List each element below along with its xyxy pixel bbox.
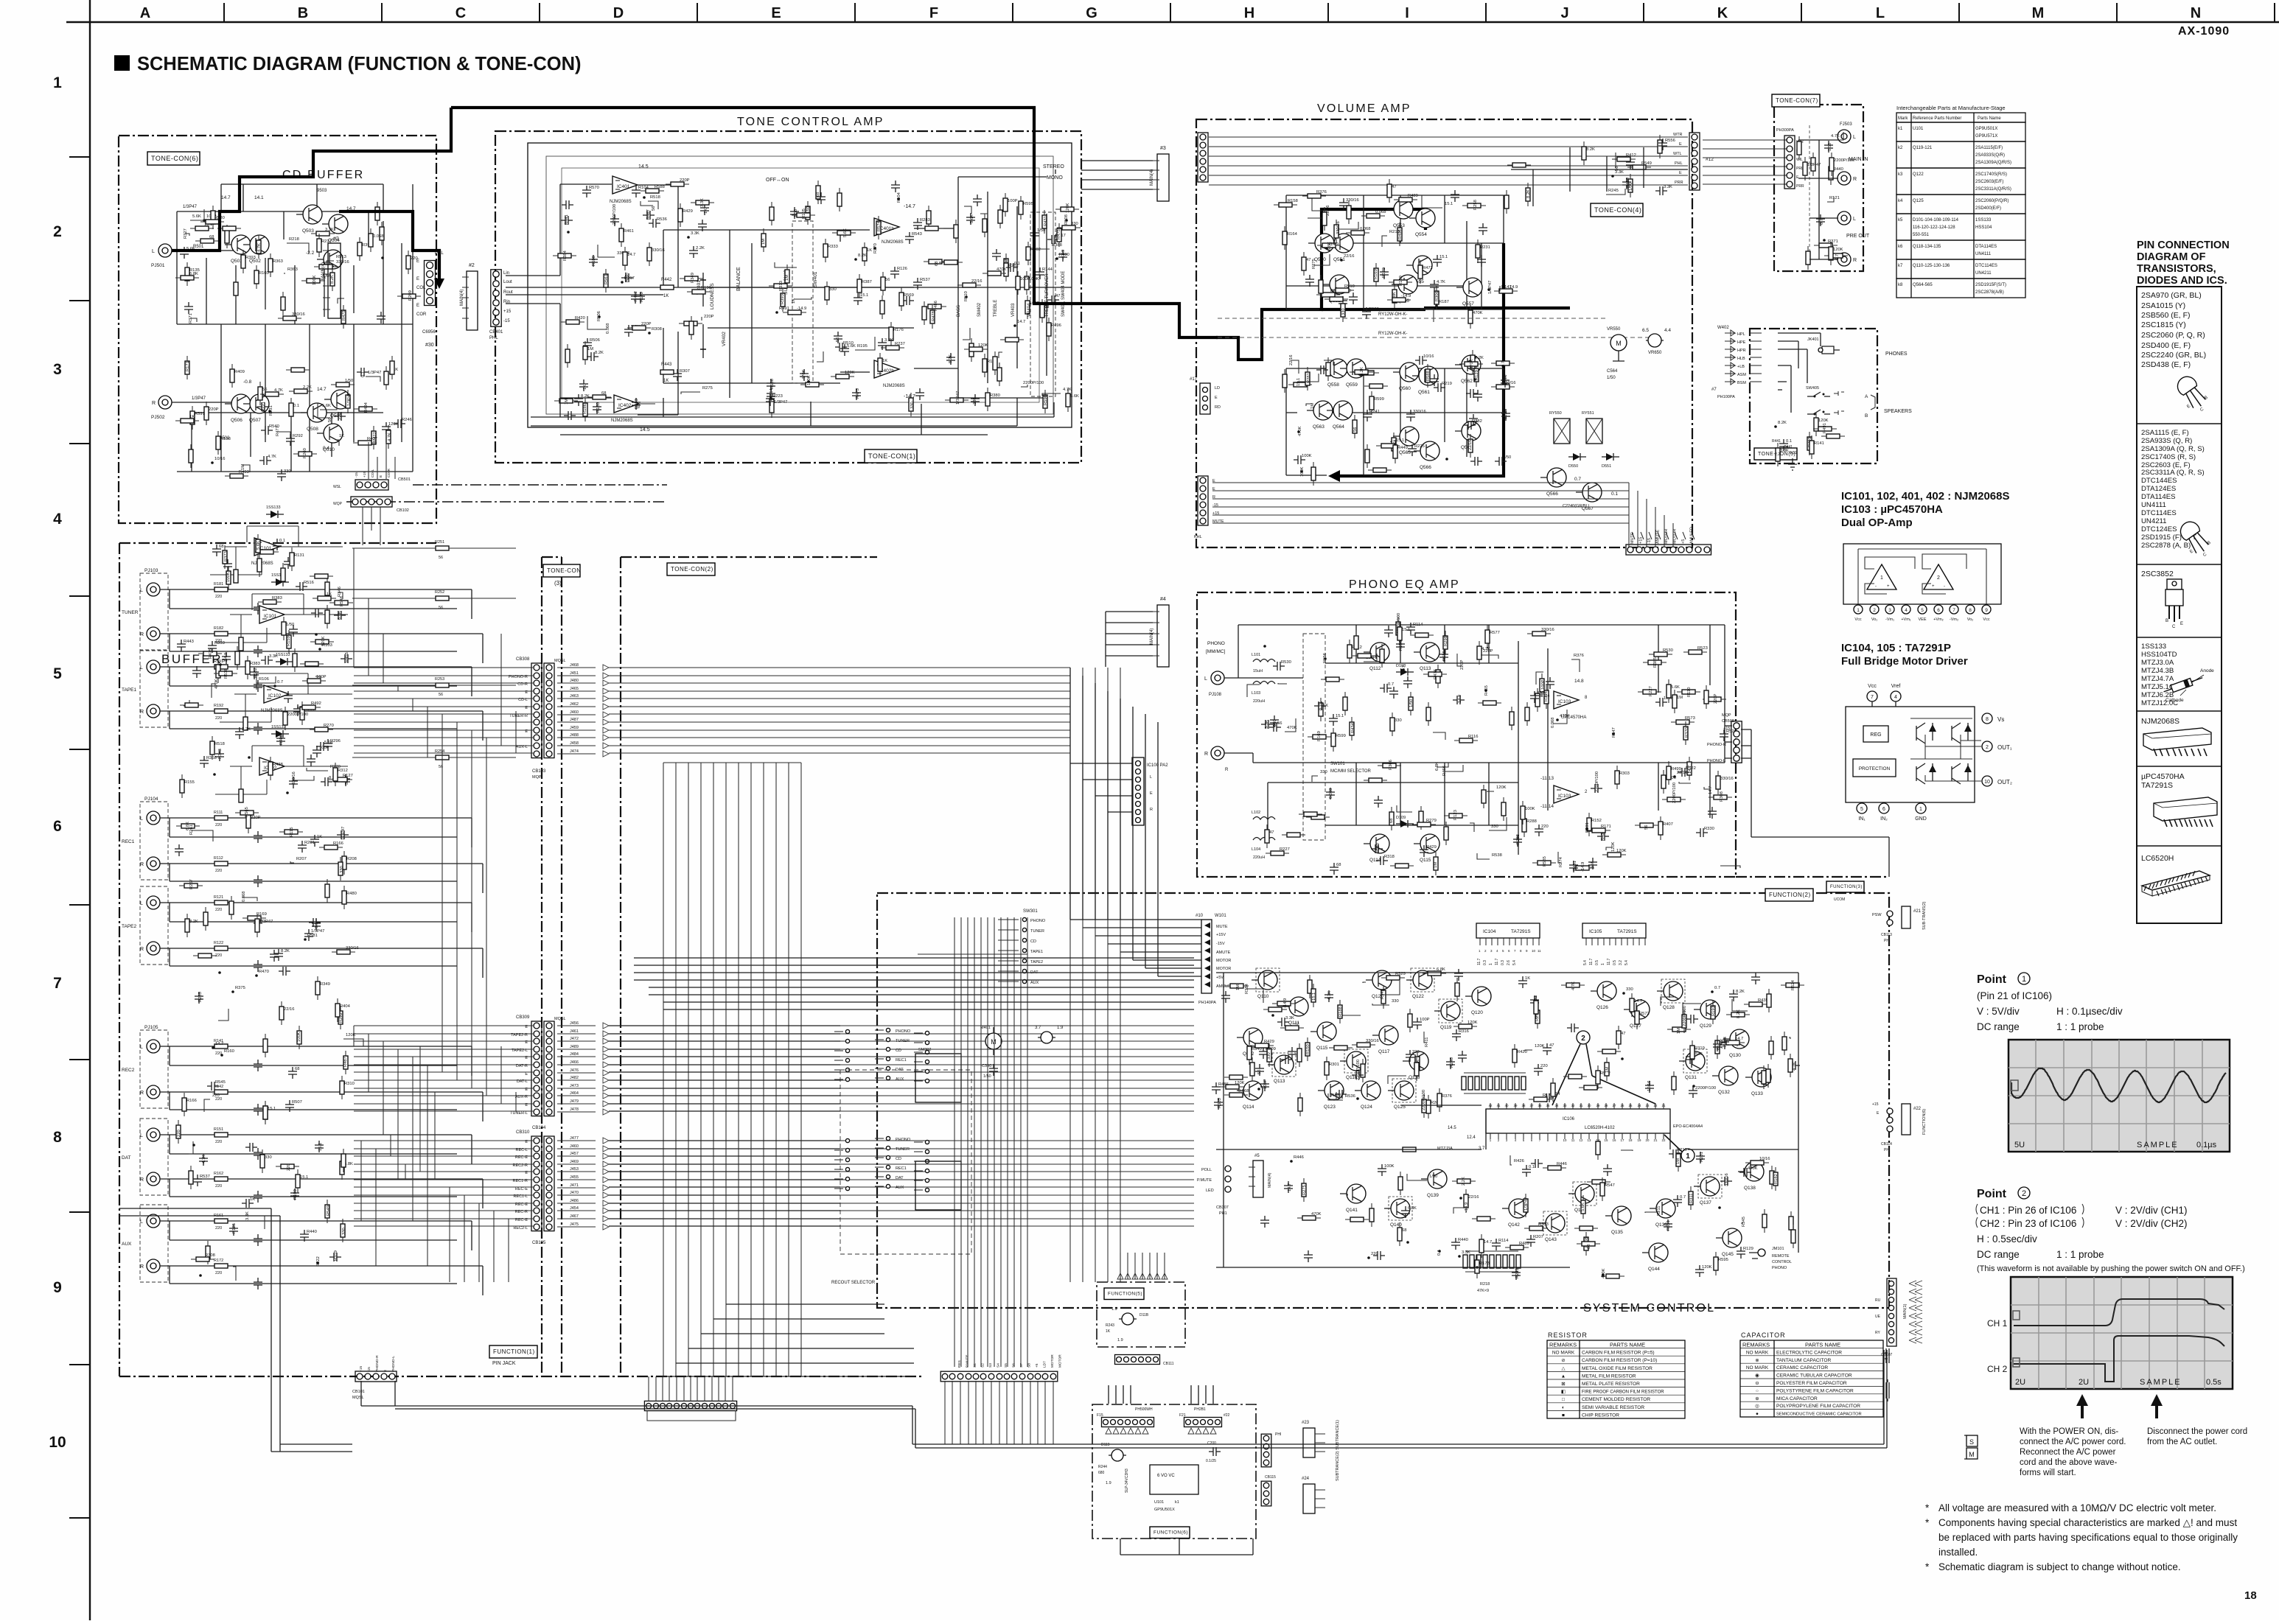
svg-text:R211: R211 <box>1657 1206 1661 1216</box>
svg-text:R103: R103 <box>322 643 332 648</box>
svg-text:0.1: 0.1 <box>279 539 285 543</box>
svg-text:R252: R252 <box>435 590 444 595</box>
svg-text:MTZJ4.7A: MTZJ4.7A <box>2141 675 2174 683</box>
svg-text:R160: R160 <box>224 1049 234 1054</box>
svg-text:CD: CD <box>896 1157 901 1161</box>
svg-text:PJ501: PJ501 <box>151 263 165 268</box>
transistor Q117 <box>1372 1026 1398 1054</box>
series parts TAPE2 <box>214 900 228 905</box>
connector MAIN(4) #4 <box>1150 597 1169 667</box>
svg-text:IN₂: IN₂ <box>1880 816 1888 822</box>
svg-text:9: 9 <box>53 1279 62 1296</box>
op-amp IC102 <box>261 685 289 713</box>
svg-text:R467: R467 <box>646 209 651 220</box>
svg-text:F15: F15 <box>1097 1413 1103 1418</box>
svg-text:PHONO: PHONO <box>896 1138 911 1142</box>
svg-text:Vo₁: Vo₁ <box>1871 617 1877 622</box>
svg-text:330/16: 330/16 <box>336 260 349 265</box>
svg-text:SM302: SM302 <box>918 1048 931 1052</box>
svg-text:⊠: ⊠ <box>1561 1382 1566 1387</box>
svg-text:Q554: Q554 <box>1415 232 1427 237</box>
TA7291P block diagram <box>1846 684 2012 822</box>
svg-text:MAIN(1): MAIN(1) <box>1903 1303 1908 1319</box>
svg-text:-14.9: -14.9 <box>1581 862 1585 872</box>
svg-text:4.7K: 4.7K <box>1793 1062 1797 1071</box>
op-amp IC101 <box>259 606 285 623</box>
svg-text:1/50: 1/50 <box>1828 143 1832 151</box>
svg-text:R231: R231 <box>1480 245 1490 250</box>
svg-text:R308: R308 <box>205 1253 215 1258</box>
transistor Q127 <box>1624 1000 1650 1029</box>
svg-text:0.1: 0.1 <box>361 371 366 377</box>
svg-text:SM402: SM402 <box>977 302 982 317</box>
svg-text:R351: R351 <box>1667 1220 1671 1231</box>
svg-text:8.2K: 8.2K <box>581 394 590 399</box>
svg-text:CB114: CB114 <box>1881 1142 1892 1147</box>
svg-text:PSW: PSW <box>1872 913 1882 917</box>
svg-text:+15: +15 <box>1723 727 1730 731</box>
jack REC2 R <box>140 1085 160 1099</box>
svg-text:2SC3311A (Q, R, S): 2SC3311A (Q, R, S) <box>2141 469 2205 477</box>
transistor Q551 <box>1327 234 1353 262</box>
svg-text:L101: L101 <box>1252 653 1260 657</box>
signal path (thick) volume inner link <box>1322 209 1570 309</box>
jack main/pre jack R352 <box>1837 253 1857 266</box>
IC NJM2068S package <box>2141 717 2211 756</box>
svg-text:L: L <box>1204 676 1207 682</box>
motor VR550 <box>1607 327 1627 380</box>
svg-text:WTL: WTL <box>1673 152 1682 156</box>
svg-text:Q563: Q563 <box>1313 424 1325 430</box>
svg-text:330: 330 <box>910 402 915 409</box>
svg-text:H : 0.5sec/div: H : 0.5sec/div <box>1977 1233 2037 1245</box>
svg-text:FUNCTION(3): FUNCTION(3) <box>1830 885 1863 889</box>
svg-text:E: E <box>1679 142 1682 147</box>
svg-text:6.8K: 6.8K <box>1435 762 1439 771</box>
svg-text:CB105: CB105 <box>532 1241 546 1245</box>
triangle arrows above function5 <box>1117 1273 1123 1279</box>
svg-text:220uH: 220uH <box>1253 855 1265 860</box>
svg-text:3.3K: 3.3K <box>1265 720 1269 729</box>
svg-text:Interchangeable Parts at Manuf: Interchangeable Parts at Manufacture-Sta… <box>1896 105 2006 111</box>
svg-text:HPL: HPL <box>1737 332 1745 337</box>
svg-text:CB310: CB310 <box>516 1130 530 1135</box>
svg-text:CB102: CB102 <box>397 508 409 513</box>
svg-text:220: 220 <box>1541 825 1549 829</box>
transistor Q141 <box>1340 1184 1366 1213</box>
transistor Q555 <box>1406 256 1432 284</box>
svg-text:100P: 100P <box>1020 277 1030 281</box>
svg-text:+5: +5 <box>1035 1363 1039 1368</box>
page edge marker S M <box>1964 1435 1978 1459</box>
op-amp IC101 <box>251 538 279 566</box>
svg-text:8: 8 <box>1986 717 1989 722</box>
svg-text:56: 56 <box>262 388 267 392</box>
feedback parts IC102 <box>215 746 348 794</box>
arrows into bottom connector <box>1632 532 1695 539</box>
svg-text:2SD1915F(S/T): 2SD1915F(S/T) <box>1975 283 2006 287</box>
svg-text:330/16: 330/16 <box>1541 628 1554 632</box>
ground sym tonecon5 <box>1788 458 1797 470</box>
svg-text:PHONO: PHONO <box>1207 641 1225 646</box>
svg-text:R518: R518 <box>224 668 228 679</box>
svg-text:IC101: IC101 <box>264 614 277 619</box>
svg-text:R296: R296 <box>330 739 341 743</box>
svg-text:R333: R333 <box>1538 1222 1549 1227</box>
svg-text:S: S <box>1969 1438 1974 1446</box>
bus joins left 3 <box>361 1046 509 1282</box>
svg-text:R166: R166 <box>333 841 343 846</box>
svg-text:R573: R573 <box>1685 716 1695 721</box>
component cluster buffer stage parts <box>177 534 353 798</box>
IC LC6520H package <box>2141 854 2210 896</box>
svg-text:0.1: 0.1 <box>1437 1250 1442 1256</box>
svg-text:6 VO VC: 6 VO VC <box>1157 1474 1175 1478</box>
svg-text:COR: COR <box>416 312 427 317</box>
svg-text:MQSL: MQSL <box>352 1396 364 1400</box>
transistor Q506 <box>225 394 251 423</box>
svg-text:STEREO: STEREO <box>1043 164 1064 169</box>
svg-text:VR402: VR402 <box>722 332 727 346</box>
svg-text:L103: L103 <box>1252 691 1260 696</box>
svg-text:R448: R448 <box>1723 1037 1728 1047</box>
svg-text:1.9: 1.9 <box>1117 1338 1123 1343</box>
svg-text:R513: R513 <box>336 255 346 259</box>
svg-text:1SS133: 1SS133 <box>271 725 286 729</box>
svg-text:220: 220 <box>1540 1064 1548 1068</box>
svg-text:68: 68 <box>1402 1228 1406 1233</box>
svg-text:E: E <box>416 304 419 308</box>
svg-text:330: 330 <box>829 287 837 292</box>
svg-text:L: L <box>1853 217 1856 222</box>
svg-text:120K: 120K <box>1467 1021 1478 1025</box>
svg-text:2SA1309A (Q, R, S): 2SA1309A (Q, R, S) <box>2141 445 2205 453</box>
svg-text:D101-104-108-109-114: D101-104-108-109-114 <box>1913 218 1959 223</box>
svg-text:330: 330 <box>1267 1052 1271 1060</box>
svg-text:MTZJ3.0A: MTZJ3.0A <box>2141 659 2174 667</box>
svg-text:PJ502: PJ502 <box>151 415 165 420</box>
svg-text:C200: C200 <box>1207 1441 1216 1446</box>
svg-text:1M: 1M <box>1677 696 1683 700</box>
svg-text:TUNER: TUNER <box>122 610 139 615</box>
transistor Q501 <box>225 235 251 264</box>
svg-text:FJ503: FJ503 <box>1840 122 1852 127</box>
svg-text:PHONO: PHONO <box>1030 919 1046 923</box>
svg-text:GP9U501X: GP9U501X <box>1154 1508 1175 1512</box>
svg-text:J462: J462 <box>570 702 579 707</box>
svg-text:R585: R585 <box>1543 856 1547 867</box>
svg-text:DAT: DAT <box>896 1176 904 1180</box>
labels CB310/CB105 <box>513 1136 609 1231</box>
svg-text:WIL: WIL <box>1796 158 1803 162</box>
svg-text:R267: R267 <box>189 879 194 889</box>
svg-text:CD-R: CD-R <box>387 468 391 477</box>
svg-text:R489: R489 <box>1408 194 1418 198</box>
svg-text:R105: R105 <box>802 209 806 219</box>
svg-text:POLYSTYRENE FILM CAPACITOR: POLYSTYRENE FILM CAPACITOR <box>1776 1388 1854 1393</box>
transistor Q567 <box>1576 483 1602 511</box>
svg-text:Q119-121: Q119-121 <box>1913 146 1933 150</box>
transistor Q119 <box>1434 999 1462 1030</box>
svg-text:R370: R370 <box>1685 727 1689 738</box>
svg-text:3.3K: 3.3K <box>691 231 699 236</box>
svg-text:R116: R116 <box>1468 735 1478 739</box>
svg-text:100P: 100P <box>1263 1079 1268 1089</box>
svg-text:R182: R182 <box>214 626 223 631</box>
transistor Q504 <box>322 214 348 243</box>
svg-text:2SC2060 (P, Q, R): 2SC2060 (P, Q, R) <box>2141 331 2205 340</box>
svg-text:470K: 470K <box>1473 311 1483 315</box>
svg-text:J482: J482 <box>570 1076 579 1080</box>
svg-text:TAPE1: TAPE1 <box>1030 950 1043 954</box>
input jack group TUNER dashed box <box>140 573 168 650</box>
svg-text:10/16: 10/16 <box>1504 374 1508 385</box>
svg-text:R122: R122 <box>214 941 223 945</box>
svg-text:R: R <box>140 1264 144 1270</box>
svg-text:R103: R103 <box>259 271 269 276</box>
svg-text:11.7: 11.7 <box>1607 958 1611 965</box>
svg-text:R393: R393 <box>245 256 256 260</box>
IC104 block <box>1476 923 1541 953</box>
wire bus mid vertical bundle <box>663 763 801 1376</box>
svg-text:470K: 470K <box>1311 1212 1322 1217</box>
svg-text:VR550: VR550 <box>1607 327 1621 332</box>
svg-text:TONE-CON(1): TONE-CON(1) <box>868 452 915 460</box>
svg-text:Q115: Q115 <box>1420 858 1431 863</box>
svg-text:4: 4 <box>1905 608 1908 613</box>
pin connection outer box <box>2137 287 2222 923</box>
transistor Q554 <box>1409 209 1435 237</box>
svg-text:IC401: IC401 <box>617 184 630 189</box>
phono opamps IC103 <box>1554 679 1588 720</box>
svg-text:SUB-TRANS(2): SUB-TRANS(2) <box>1922 901 1927 930</box>
svg-text:R486: R486 <box>934 301 938 311</box>
svg-text:8.2K: 8.2K <box>858 253 867 258</box>
svg-text:PHONO: PHONO <box>896 1029 911 1034</box>
svg-text:REC2-L: REC2-L <box>513 1226 528 1231</box>
svg-text:POLYPROPYLENE FILM CAPACITOR: POLYPROPYLENE FILM CAPACITOR <box>1776 1404 1860 1409</box>
svg-text:Anode: Anode <box>2200 668 2214 673</box>
svg-text:R501: R501 <box>193 245 204 249</box>
svg-text:5: 5 <box>53 665 62 682</box>
svg-text:#23: #23 <box>1302 1421 1310 1425</box>
svg-text:16: 16 <box>1613 1138 1616 1142</box>
svg-text:R491: R491 <box>1823 423 1827 433</box>
svg-text:J487: J487 <box>570 718 579 722</box>
svg-text:RES: RES <box>957 1360 962 1368</box>
svg-text:PJ104: PJ104 <box>144 797 158 802</box>
svg-text:LD: LD <box>1215 386 1220 391</box>
svg-text:METAL PLATE RESISTOR: METAL PLATE RESISTOR <box>1582 1382 1640 1387</box>
svg-text:PROTECTION: PROTECTION <box>1859 766 1891 771</box>
svg-text:R292: R292 <box>293 434 303 438</box>
wire TUNER jack wires <box>160 589 483 663</box>
svg-text:120K: 120K <box>1616 849 1627 853</box>
block SYSTEM CONTROL outline FUNCTION(2) <box>877 893 1889 1308</box>
svg-text:18: 18 <box>1629 1138 1633 1142</box>
svg-text:R164: R164 <box>1287 232 1298 237</box>
svg-text:RY550: RY550 <box>1549 411 1562 416</box>
svg-text:R371: R371 <box>189 313 193 323</box>
svg-text:R487: R487 <box>343 1057 348 1067</box>
svg-text:SEMICONDUCTIVE CERAMIC CAPACIT: SEMICONDUCTIVE CERAMIC CAPACITOR <box>1776 1413 1862 1417</box>
transistor group 1 list <box>2141 291 2213 418</box>
svg-text:R549: R549 <box>327 1205 331 1216</box>
svg-text:CB501: CB501 <box>398 477 411 482</box>
transistor Q561 <box>1412 366 1438 395</box>
svg-text:be replaced with parts having: be replaced with parts having specificat… <box>1938 1532 2238 1543</box>
feedback parts IC101 <box>215 594 348 643</box>
svg-text:J488: J488 <box>570 733 579 738</box>
speaker switches SW405 <box>1806 386 1868 419</box>
svg-text:(This waveform is not availabl: (This waveform is not available by pushi… <box>1977 1264 2245 1273</box>
buffer output resistors <box>352 540 516 769</box>
svg-text:R546: R546 <box>340 596 344 606</box>
svg-text:0.1: 0.1 <box>293 404 299 408</box>
svg-text:100K: 100K <box>1300 466 1305 477</box>
svg-text:TUNER-L: TUNER-L <box>510 1111 528 1116</box>
svg-text:R210: R210 <box>1677 1148 1687 1152</box>
svg-text:MOTOR: MOTOR <box>1216 967 1231 971</box>
svg-text:TANTALUM CAPACITOR: TANTALUM CAPACITOR <box>1776 1358 1831 1363</box>
svg-text:1/50: 1/50 <box>286 623 294 627</box>
svg-text:1 : 1 probe: 1 : 1 probe <box>2056 1249 2104 1260</box>
component cluster tonecon7 parts <box>1797 132 1854 270</box>
svg-text:12: 12 <box>1580 1138 1583 1142</box>
svg-text:A: A <box>140 5 150 21</box>
svg-text:MOTOR: MOTOR <box>1664 529 1669 544</box>
svg-text:R222: R222 <box>316 1256 321 1267</box>
svg-text:#10: #10 <box>1196 914 1204 918</box>
svg-text:14.7: 14.7 <box>215 1042 223 1046</box>
transistor Q144 <box>1642 1243 1668 1272</box>
svg-text:1/50: 1/50 <box>983 1074 991 1079</box>
W101 connector arrows <box>1196 914 1233 1005</box>
transistor Q114 <box>1237 1081 1263 1110</box>
svg-text:PHONO: PHONO <box>1772 1266 1787 1270</box>
svg-text:R166: R166 <box>186 1099 197 1103</box>
svg-text:RY12W-OH-K-: RY12W-OH-K- <box>1378 332 1407 336</box>
svg-text:Vo₂: Vo₂ <box>1967 617 1974 622</box>
svg-text:IC102: IC102 <box>268 693 282 699</box>
svg-text:J460: J460 <box>570 710 579 715</box>
svg-text:J460: J460 <box>570 1144 579 1149</box>
R442 R443 resistors <box>660 278 674 298</box>
svg-text:NJM2068S: NJM2068S <box>610 200 632 204</box>
svg-text:1SS133: 1SS133 <box>2141 643 2166 651</box>
svg-text:100K: 100K <box>313 275 317 285</box>
svg-text:1/50: 1/50 <box>1503 455 1511 460</box>
svg-text:100K: 100K <box>297 1032 301 1042</box>
svg-text:PH140PA: PH140PA <box>1198 1001 1216 1005</box>
svg-text:3.3K: 3.3K <box>1664 185 1672 189</box>
svg-text:BASS: BASS <box>957 305 961 317</box>
svg-text:15.1: 15.1 <box>1439 255 1448 259</box>
svg-text:39: 39 <box>1514 1104 1518 1107</box>
connector PH160PA <box>1102 1418 1154 1427</box>
svg-text:Q503: Q503 <box>302 228 314 234</box>
svg-text:1K: 1K <box>250 1197 255 1202</box>
svg-text:330: 330 <box>1392 999 1399 1004</box>
svg-text:R572: R572 <box>1639 1012 1650 1016</box>
page title <box>114 54 582 74</box>
svg-text:22/16: 22/16 <box>1289 354 1294 365</box>
svg-text:J454: J454 <box>570 1206 579 1211</box>
transistor Q122 <box>1406 968 1434 999</box>
svg-text:R491: R491 <box>779 307 789 311</box>
svg-text:56: 56 <box>439 556 443 560</box>
wire sel feed 2 <box>609 1141 840 1226</box>
svg-text:R461: R461 <box>1573 861 1577 871</box>
svg-text:RECOUT SELECTOR: RECOUT SELECTOR <box>831 1281 876 1285</box>
svg-text:□: □ <box>1562 1397 1565 1402</box>
remote control jack <box>1749 1247 1792 1270</box>
component cluster phono parts R <box>1265 757 1740 875</box>
svg-text:R561: R561 <box>604 274 609 284</box>
svg-text:15.1: 15.1 <box>1336 714 1344 718</box>
svg-text:R382: R382 <box>1472 419 1482 424</box>
svg-text:RY12W-OH-K-: RY12W-OH-K- <box>1378 312 1407 317</box>
svg-text:R129: R129 <box>1743 1247 1753 1251</box>
C200 label <box>1206 1441 1221 1463</box>
svg-text:20: 20 <box>1646 1138 1650 1142</box>
transistor Q552 <box>1323 275 1349 304</box>
svg-text:RY: RY <box>1875 1331 1881 1335</box>
labels CB308/CB103 <box>509 663 609 757</box>
relay dashed lines <box>1218 318 1657 337</box>
svg-text:11: 11 <box>1571 1138 1575 1142</box>
svg-text:R306: R306 <box>1435 291 1439 301</box>
svg-text:R217: R217 <box>624 276 635 281</box>
svg-text:220: 220 <box>215 908 222 912</box>
svg-text:N: N <box>2191 5 2201 21</box>
svg-text:11.7: 11.7 <box>1477 958 1481 965</box>
svg-text:R209: R209 <box>408 290 413 301</box>
svg-text:23: 23 <box>1646 1104 1650 1107</box>
svg-text:R599: R599 <box>1374 397 1384 402</box>
svg-text:330/16: 330/16 <box>1413 410 1426 414</box>
svg-text:#30: #30 <box>425 343 434 348</box>
svg-text:22/16: 22/16 <box>1344 254 1355 259</box>
svg-text:DTC124ES: DTC124ES <box>2141 525 2177 533</box>
svg-text:L: L <box>140 588 143 593</box>
svg-text:R311: R311 <box>1689 1194 1694 1203</box>
svg-text:J470: J470 <box>570 1191 579 1195</box>
svg-text:R127: R127 <box>343 774 353 778</box>
svg-text:I: I <box>1405 5 1409 21</box>
svg-text:120K: 120K <box>978 343 988 348</box>
svg-text:R393: R393 <box>781 294 785 304</box>
svg-text:8.2K: 8.2K <box>1360 367 1364 376</box>
svg-text:SW301: SW301 <box>1023 909 1038 914</box>
transistor Q505 <box>317 250 343 279</box>
svg-text:R429: R429 <box>1264 1040 1274 1044</box>
svg-text:220P: 220P <box>209 407 219 412</box>
svg-text:IC103: IC103 <box>1558 794 1571 799</box>
svg-text:R218: R218 <box>289 237 299 242</box>
svg-text:2SC2603(E/F): 2SC2603(E/F) <box>1975 180 2003 184</box>
jack PJ108 R <box>1204 746 1224 760</box>
svg-text:HSS104TD: HSS104TD <box>2141 651 2177 659</box>
svg-text:+LB: +LB <box>1737 365 1745 369</box>
svg-text:R411: R411 <box>1425 1037 1429 1047</box>
svg-text:3.2: 3.2 <box>1619 960 1623 965</box>
svg-text:-14.9: -14.9 <box>1283 998 1288 1008</box>
svg-text:IN₁: IN₁ <box>1858 816 1866 822</box>
#23 #24 connectors <box>1302 1421 1325 1457</box>
svg-text:R588: R588 <box>1426 371 1431 381</box>
svg-text:E: E <box>416 277 419 281</box>
